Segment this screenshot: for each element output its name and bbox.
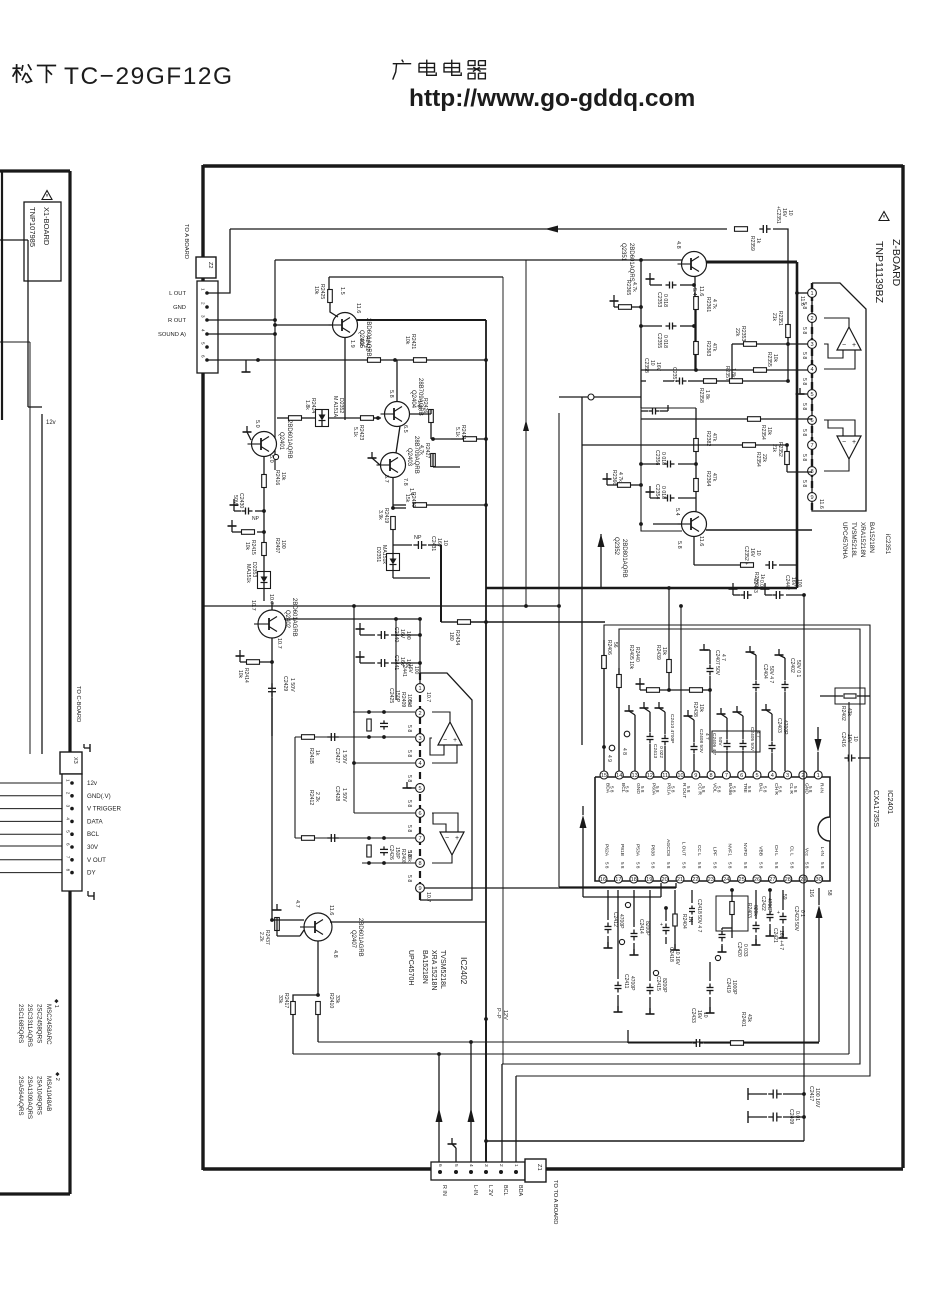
svg-text:5 8: 5 8 [712, 862, 717, 869]
svg-text:1.6k: 1.6k [416, 400, 422, 410]
svg-text:R2358: R2358 [698, 388, 704, 403]
svg-text:5 8: 5 8 [801, 454, 807, 461]
svg-text:BA15218N: BA15218N [868, 522, 875, 553]
svg-text:Q2351: Q2351 [620, 243, 626, 262]
svg-text:13: 13 [631, 773, 637, 779]
svg-text:10: 10 [649, 360, 655, 366]
svg-text:5 8: 5 8 [640, 786, 645, 793]
svg-text:22: 22 [692, 877, 698, 883]
svg-text:R2359: R2359 [749, 236, 755, 251]
svg-text:1 8k: 1 8k [704, 390, 710, 400]
svg-text:4 9: 4 9 [606, 755, 612, 762]
svg-text:4 7: 4 7 [704, 733, 710, 740]
svg-text:1 50V: 1 50V [341, 750, 347, 764]
svg-text:C2415: C2415 [655, 976, 661, 991]
svg-text:21: 21 [677, 877, 683, 883]
svg-text:−: − [842, 439, 846, 446]
svg-text:5.1k: 5.1k [454, 427, 460, 437]
svg-text:C2410 4700P: C2410 4700P [669, 714, 675, 743]
svg-text:C2411: C2411 [623, 974, 629, 989]
svg-text:http://www.go-gddq.com: http://www.go-gddq.com [409, 85, 695, 112]
svg-text:16V: 16V [655, 362, 661, 372]
svg-text:0.01: 0.01 [794, 1111, 800, 1121]
svg-text:CL L: CL L [788, 846, 794, 856]
svg-text:C2417: C2417 [808, 1086, 814, 1101]
svg-text:7: 7 [418, 836, 421, 842]
svg-text:5 8: 5 8 [789, 862, 794, 869]
svg-text:10.7: 10.7 [268, 594, 274, 605]
svg-text:5 8: 5 8 [759, 862, 764, 869]
svg-text:4.7k: 4.7k [631, 282, 637, 292]
svg-text:17: 17 [615, 877, 621, 883]
svg-text:5 8: 5 8 [762, 786, 767, 793]
svg-text:1: 1 [513, 1164, 519, 1167]
svg-text:C2353: C2353 [656, 292, 662, 307]
svg-text:NP: NP [414, 535, 422, 541]
svg-text:22k: 22k [761, 454, 767, 463]
svg-text:NP: NP [252, 516, 260, 522]
svg-text:4: 4 [201, 329, 206, 332]
svg-text:0 018: 0 018 [662, 335, 668, 348]
svg-text:59: 59 [781, 894, 787, 900]
svg-text:25: 25 [738, 877, 744, 883]
svg-text:C2423 50V: C2423 50V [793, 906, 799, 932]
svg-text:150P: 150P [394, 690, 400, 703]
svg-text:10: 10 [677, 773, 683, 779]
svg-text:4700P: 4700P [618, 914, 624, 929]
svg-text:3: 3 [483, 1164, 489, 1167]
svg-text:V TRIGGER: V TRIGGER [87, 806, 121, 813]
svg-text:R2364: R2364 [705, 471, 711, 486]
svg-text:100 16V: 100 16V [814, 1088, 820, 1108]
svg-text:16: 16 [600, 877, 606, 883]
svg-text:4: 4 [810, 367, 813, 373]
svg-text:5.1k: 5.1k [352, 427, 358, 437]
svg-text:UPC4570H: UPC4570H [407, 950, 414, 985]
svg-text:C2404: C2404 [762, 664, 768, 679]
svg-text:5 8: 5 8 [801, 352, 807, 359]
svg-text:5.8: 5.8 [676, 541, 682, 549]
svg-text:33k: 33k [277, 995, 283, 1004]
svg-text:5 8: 5 8 [605, 862, 610, 869]
svg-text:30: 30 [815, 877, 821, 883]
svg-text:10.7: 10.7 [425, 892, 431, 902]
svg-text:R2405 10k: R2405 10k [628, 645, 634, 670]
svg-text:4.8: 4.8 [332, 950, 338, 958]
svg-text:26: 26 [754, 877, 760, 883]
svg-text:16V: 16V [696, 1010, 702, 1020]
svg-text:1: 1 [66, 779, 71, 782]
svg-text:10k: 10k [698, 704, 704, 713]
svg-text:100: 100 [413, 666, 419, 675]
svg-text:+: + [777, 910, 780, 916]
svg-text:18: 18 [631, 877, 637, 883]
svg-text:6.5: 6.5 [402, 425, 408, 433]
svg-text:NVFD: NVFD [742, 843, 748, 857]
svg-text:TVSM5218L: TVSM5218L [439, 950, 446, 989]
svg-text:C2355: C2355 [656, 333, 662, 348]
svg-text:+: + [852, 439, 856, 446]
svg-text:3: 3 [418, 736, 421, 742]
svg-text:5 8: 5 8 [635, 862, 640, 869]
svg-text:R2354: R2354 [755, 452, 761, 467]
svg-text:5 8: 5 8 [620, 862, 625, 869]
svg-text:MSC2458ARC: MSC2458ARC [45, 1004, 52, 1045]
svg-text:6: 6 [418, 811, 421, 817]
svg-text:5 8: 5 8 [406, 800, 412, 807]
svg-text:11.6: 11.6 [328, 905, 334, 915]
svg-text:C2413: C2413 [652, 744, 658, 758]
svg-text:7: 7 [810, 443, 813, 449]
svg-text:2SC3311AQRS: 2SC3311AQRS [26, 1004, 33, 1047]
svg-text:C2427: C2427 [334, 748, 340, 763]
svg-text:VBB: VBB [758, 846, 764, 856]
svg-text:R2416: R2416 [274, 470, 280, 485]
svg-text:C2426: C2426 [388, 845, 394, 860]
svg-text:1k: 1k [314, 750, 320, 756]
svg-text:5 8: 5 8 [801, 327, 807, 334]
svg-text:C2441: C2441 [401, 662, 407, 677]
svg-text:1k: 1k [759, 574, 765, 580]
svg-text:1: 1 [418, 686, 421, 692]
svg-text:5: 5 [755, 773, 758, 779]
svg-text:R2404: R2404 [681, 914, 687, 929]
svg-text:C2419: C2419 [725, 978, 731, 993]
svg-text:2SC2458QRS: 2SC2458QRS [36, 1004, 43, 1043]
svg-text:R2382: R2382 [705, 431, 711, 446]
svg-text:4 8: 4 8 [621, 748, 627, 755]
svg-text:11: 11 [662, 773, 668, 779]
svg-text:NVF1: NVF1 [727, 843, 733, 856]
svg-text:R2365: R2365 [625, 280, 631, 295]
svg-text:R2409: R2409 [400, 692, 406, 707]
svg-text:P838: P838 [650, 845, 656, 857]
svg-text:12v: 12v [87, 780, 98, 787]
svg-text:R2412: R2412 [308, 790, 314, 805]
svg-text:+: + [453, 737, 457, 744]
svg-text:47k: 47k [711, 473, 717, 482]
svg-text:1: 1 [817, 773, 820, 779]
svg-text:5 8: 5 8 [801, 480, 807, 487]
svg-text:5 8: 5 8 [671, 786, 676, 793]
svg-text:P−P: P−P [495, 1008, 501, 1019]
svg-text:5 8: 5 8 [406, 875, 412, 882]
svg-text:6: 6 [740, 773, 743, 779]
svg-text:C2429: C2429 [282, 676, 288, 691]
svg-text:16V: 16V [846, 734, 852, 744]
svg-text:Z2: Z2 [207, 262, 213, 268]
svg-text:5 8: 5 8 [716, 786, 721, 793]
svg-text:5 8: 5 8 [808, 786, 813, 793]
svg-text:4: 4 [418, 761, 421, 767]
svg-text:R2438: R2438 [692, 702, 698, 717]
svg-text:6: 6 [201, 355, 206, 358]
svg-text:5: 5 [418, 786, 421, 792]
svg-text:10k: 10k [280, 472, 286, 481]
svg-text:Q2403: Q2403 [406, 448, 412, 467]
svg-text:10k: 10k [313, 286, 319, 295]
svg-text:R2354: R2354 [760, 425, 766, 440]
svg-text:4700P: 4700P [766, 898, 772, 913]
svg-text:2: 2 [418, 711, 421, 717]
svg-text:12: 12 [647, 773, 653, 779]
svg-text:15k: 15k [404, 494, 410, 503]
svg-text:D2351: D2351 [375, 547, 381, 562]
svg-text:3.9k: 3.9k [377, 510, 383, 520]
svg-text:4 7k: 4 7k [617, 472, 623, 482]
svg-text:21k: 21k [771, 444, 777, 453]
svg-text:C2422: C2422 [760, 896, 766, 911]
svg-text:10: 10 [852, 736, 858, 742]
svg-text:9: 9 [694, 773, 697, 779]
svg-text:C2420: C2420 [736, 942, 742, 957]
svg-text:BCL: BCL [87, 831, 100, 838]
svg-text:4.7: 4.7 [294, 900, 300, 908]
svg-text:2: 2 [201, 302, 206, 305]
svg-text:MSA1048AB: MSA1048AB [45, 1076, 52, 1111]
svg-text:28: 28 [785, 877, 791, 883]
svg-text:10k: 10k [766, 427, 772, 436]
svg-text:5 8: 5 8 [701, 786, 706, 793]
svg-text:16V: 16V [399, 629, 405, 639]
svg-text:LPF: LPF [711, 847, 717, 856]
svg-text:1k: 1k [755, 238, 761, 244]
svg-text:R2407: R2407 [274, 538, 280, 553]
svg-text:CC L: CC L [696, 845, 702, 856]
svg-text:47k: 47k [711, 433, 717, 442]
svg-text:R2408: R2408 [400, 849, 406, 864]
svg-text:4 7k: 4 7k [711, 299, 717, 309]
svg-text:2.2k: 2.2k [258, 932, 264, 942]
svg-text:5 8: 5 8 [820, 862, 825, 869]
svg-text:28B709AQRB: 28B709AQRB [413, 436, 419, 474]
svg-text:4: 4 [468, 1164, 474, 1167]
svg-text:2: 2 [66, 792, 71, 795]
svg-text:0 018: 0 018 [662, 294, 668, 307]
svg-text:P62A: P62A [604, 844, 610, 857]
svg-text:C2357: C2357 [671, 367, 677, 382]
svg-text:10: 10 [787, 210, 793, 216]
svg-text:R2366: R2366 [611, 470, 617, 485]
svg-text:5 8: 5 8 [801, 378, 807, 385]
svg-text:Q2404: Q2404 [410, 390, 416, 409]
svg-text:SOUND A): SOUND A) [158, 332, 186, 338]
svg-text:C2418: C2418 [668, 947, 674, 962]
svg-text:AGCC8: AGCC8 [665, 839, 671, 856]
svg-text:R-IN: R-IN [819, 783, 825, 794]
svg-text:116: 116 [808, 889, 814, 897]
svg-text:5 8: 5 8 [747, 786, 752, 793]
svg-text:TO C-BOARD: TO C-BOARD [75, 686, 81, 722]
svg-text:R2440: R2440 [634, 647, 640, 662]
svg-text:6: 6 [66, 843, 71, 846]
svg-text:M A151A: M A151A [332, 396, 338, 418]
svg-text:◆ 1: ◆ 1 [53, 999, 59, 1008]
svg-text:TNP107985: TNP107985 [28, 207, 37, 247]
svg-text:2 2k: 2 2k [314, 792, 320, 802]
svg-text:10: 10 [755, 550, 761, 556]
svg-text:Z1: Z1 [536, 1164, 542, 1171]
svg-text:10.7: 10.7 [425, 692, 431, 702]
svg-text:19: 19 [646, 877, 652, 883]
svg-text:CXA1735S: CXA1735S [872, 790, 881, 827]
svg-text:R2406: R2406 [606, 640, 612, 655]
svg-text:+: + [455, 835, 459, 842]
svg-text:C2425: C2425 [388, 688, 394, 703]
svg-text:5.0: 5.0 [254, 420, 260, 428]
svg-text:100: 100 [796, 579, 802, 588]
svg-text:10k: 10k [244, 542, 250, 551]
svg-text:4700P: 4700P [629, 976, 635, 991]
svg-text:5 8: 5 8 [406, 825, 412, 832]
svg-text:XRA 15218N: XRA 15218N [430, 950, 437, 990]
svg-text:DATA: DATA [87, 818, 103, 825]
svg-text:14: 14 [616, 773, 622, 779]
svg-text:C2412: C2412 [612, 912, 618, 927]
svg-text:56: 56 [612, 642, 618, 648]
svg-text:X3: X3 [72, 757, 78, 764]
svg-text:1 50V: 1 50V [341, 788, 347, 802]
svg-text:5.4: 5.4 [674, 508, 680, 516]
svg-text:5 8: 5 8 [801, 403, 807, 410]
svg-text:1000P: 1000P [731, 980, 737, 995]
svg-text:8: 8 [66, 869, 71, 872]
svg-text:−: − [842, 342, 846, 349]
svg-text:5 8: 5 8 [406, 725, 412, 732]
svg-text:10k: 10k [404, 336, 410, 345]
svg-text:4 7: 4 7 [720, 654, 726, 661]
svg-text:5 8: 5 8 [805, 862, 810, 869]
svg-text:◆ 2: ◆ 2 [54, 1072, 60, 1081]
svg-text:8: 8 [710, 773, 713, 779]
svg-text:20: 20 [661, 877, 667, 883]
svg-text:Q2352: Q2352 [613, 537, 619, 556]
svg-text:Q2407: Q2407 [350, 930, 356, 949]
svg-text:CH L: CH L [773, 845, 779, 856]
svg-text:+: + [660, 922, 663, 928]
svg-text:0 022: 0 022 [658, 746, 664, 758]
svg-text:2: 2 [498, 1164, 504, 1167]
svg-text:820k: 820k [752, 905, 758, 916]
svg-text:2SA1309AQRS: 2SA1309AQRS [26, 1076, 33, 1119]
svg-text:180: 180 [448, 632, 454, 641]
svg-text:C2416: C2416 [840, 732, 846, 747]
svg-text:C2428: C2428 [334, 786, 340, 801]
svg-text:C2443: C2443 [752, 578, 758, 593]
svg-text:R2355: R2355 [766, 352, 772, 367]
svg-text:11.6: 11.6 [355, 303, 361, 313]
svg-text:TVSM5218L: TVSM5218L [850, 522, 857, 558]
svg-text:GND(.V): GND(.V) [87, 793, 111, 800]
svg-text:+C2351: +C2351 [775, 206, 781, 224]
svg-text:5 8: 5 8 [697, 862, 702, 869]
svg-text:8200P: 8200P [644, 921, 650, 936]
svg-text:R IN: R IN [441, 1185, 447, 1196]
svg-text:5 8: 5 8 [406, 775, 412, 782]
svg-text:3: 3 [810, 342, 813, 348]
svg-text:P81B: P81B [619, 844, 625, 856]
svg-text:4.8: 4.8 [675, 241, 681, 249]
svg-text:16V: 16V [407, 664, 413, 674]
svg-text:L OUT: L OUT [169, 291, 186, 297]
svg-text:5 8: 5 8 [778, 786, 783, 793]
svg-text:50V: 50V [717, 737, 723, 746]
svg-text:C2354: C2354 [654, 484, 660, 499]
svg-text:5: 5 [453, 1164, 459, 1167]
svg-text:MA151k: MA151k [245, 564, 251, 583]
svg-text:L OUT: L OUT [681, 842, 687, 856]
svg-text:UPC4570HA: UPC4570HA [841, 522, 848, 559]
svg-text:100k: 100k [406, 694, 412, 706]
svg-text:X1-BOARD: X1-BOARD [42, 207, 51, 246]
svg-text:10 16V: 10 16V [674, 949, 680, 966]
svg-text:Z-BOARD: Z-BOARD [890, 239, 902, 287]
svg-text:10k: 10k [772, 354, 778, 363]
svg-text:2BD601AQRB: 2BD601AQRB [286, 420, 292, 459]
svg-text:7: 7 [725, 773, 728, 779]
svg-text:5.7: 5.7 [383, 475, 389, 483]
svg-text:7.8: 7.8 [402, 478, 408, 486]
svg-text:5 8: 5 8 [666, 862, 671, 869]
svg-text:43k: 43k [746, 1014, 752, 1023]
svg-text:5 8: 5 8 [801, 302, 807, 309]
svg-text:R2363: R2363 [705, 341, 711, 356]
svg-text:5: 5 [201, 342, 206, 345]
svg-text:5 8: 5 8 [801, 429, 807, 436]
svg-text:R2403: R2403 [746, 903, 752, 918]
svg-text:2SA1049QRS: 2SA1049QRS [36, 1076, 43, 1115]
svg-text:3: 3 [66, 805, 71, 808]
svg-text:10.7: 10.7 [276, 638, 282, 649]
svg-text:iC2351: iC2351 [884, 534, 891, 555]
svg-text:C2431: C2431 [430, 536, 436, 551]
svg-text:R OUT: R OUT [168, 318, 186, 324]
svg-text:Vcc: Vcc [804, 848, 810, 857]
svg-text:P53A: P53A [634, 844, 640, 857]
svg-text:50V 0 1: 50V 0 1 [795, 660, 801, 677]
svg-text:5 8: 5 8 [743, 862, 748, 869]
svg-text:5 8: 5 8 [686, 786, 691, 793]
svg-text:R2402: R2402 [840, 706, 846, 721]
svg-text:2SA564AQRS: 2SA564AQRS [17, 1076, 24, 1116]
svg-text:27: 27 [769, 877, 775, 883]
svg-text:5.4: 5.4 [691, 288, 697, 296]
svg-text:0 033: 0 033 [742, 944, 748, 957]
svg-text:C2442: C2442 [784, 575, 790, 590]
svg-text:11.6: 11.6 [698, 536, 704, 546]
svg-text:TO A BOARD: TO A BOARD [183, 224, 189, 259]
svg-text:R2361: R2361 [705, 297, 711, 312]
svg-text:8200P: 8200P [661, 978, 667, 993]
svg-text:1: 1 [201, 288, 206, 291]
svg-text:10: 10 [442, 540, 448, 546]
svg-text:L-IN: L-IN [472, 1185, 478, 1195]
svg-text:3: 3 [786, 773, 789, 779]
svg-text:1.9: 1.9 [349, 340, 355, 348]
svg-text:47k: 47k [711, 343, 717, 352]
svg-text:50V1: 50V1 [232, 495, 238, 507]
svg-text:2BD601AGRB: 2BD601AGRB [357, 918, 363, 957]
svg-text:30V: 30V [87, 844, 99, 851]
svg-text:L 2V: L 2V [487, 1185, 493, 1196]
svg-text:9: 9 [810, 495, 813, 501]
svg-text:TNP11139BZ: TNP11139BZ [873, 241, 885, 304]
svg-text:C2403: C2403 [776, 718, 782, 733]
svg-text:100k: 100k [406, 851, 412, 862]
svg-text:5 8: 5 8 [609, 786, 614, 793]
svg-text:IC2401: IC2401 [886, 790, 895, 814]
svg-text:BA15218N: BA15218N [421, 950, 428, 984]
